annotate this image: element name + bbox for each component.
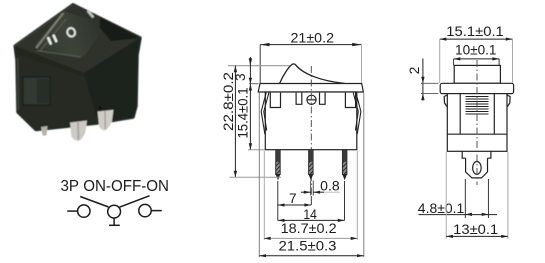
svg-text:15.4±0.1: 15.4±0.1: [235, 88, 250, 139]
photo pin 2: [70, 121, 87, 142]
photo rocker highlight edge: [37, 14, 64, 48]
svg-text:4.8±0.1: 4.8±0.1: [418, 201, 465, 216]
photo pin 3: [98, 110, 114, 131]
photo marking II: [47, 34, 58, 45]
dimension 13±0.1: [446, 152, 508, 239]
dimension 14: [278, 181, 345, 222]
schematic symbol: [67, 196, 161, 226]
dimension 22.8±0.2: [221, 66, 281, 178]
svg-text:22.8±0.2: 22.8±0.2: [221, 72, 236, 131]
dimension 15.1±0.1: [440, 24, 513, 83]
front centerline: [310, 66, 312, 196]
svg-text:0.8: 0.8: [320, 178, 340, 193]
schematic left stub wire: [67, 210, 77, 212]
photo bezel underside band: [15, 46, 85, 80]
dimension 18.7±0.2: [264, 151, 357, 240]
front center left tab: [296, 93, 302, 105]
front pin 3: [342, 150, 347, 181]
photo body front face: [17, 54, 98, 130]
front right tab: [345, 93, 355, 108]
photo bezel top-left edge light: [15, 5, 73, 46]
front flange: [258, 84, 363, 93]
svg-text:18.7±0.2: 18.7±0.2: [281, 221, 337, 236]
photo rocker surface: [35, 12, 104, 57]
photo front recessed panel: [23, 77, 50, 105]
front body outline: [265, 92, 357, 150]
side centerline: [476, 60, 478, 185]
photo front face dot: [99, 107, 102, 110]
dimension 3: [228, 57, 290, 93]
svg-text:15.1±0.1: 15.1±0.1: [446, 24, 504, 39]
schematic left lever wire: [80, 197, 108, 208]
svg-text:3P ON-OFF-ON: 3P ON-OFF-ON: [61, 178, 170, 195]
schematic right lever wire: [120, 196, 150, 208]
front screw circle: [307, 95, 316, 104]
schematic common stub wire: [113, 218, 115, 225]
side mid line: [447, 133, 507, 135]
photo bezel top face: [15, 5, 140, 73]
photo marking I: [86, 10, 94, 19]
side inner column right: [493, 94, 495, 135]
svg-text:2: 2: [407, 67, 422, 75]
dimension 7: [278, 181, 311, 220]
side left clip wedge: [444, 95, 447, 107]
rocker switch photo: [15, 5, 140, 141]
photo rocker shadow wedge: [100, 17, 140, 41]
side right clip wedge: [507, 95, 510, 107]
svg-text:14: 14: [303, 207, 317, 222]
dimension 21±0.2: [260, 31, 361, 84]
dimension 10±0.1: [454, 42, 500, 65]
dimension 4.8±0.1: [418, 179, 497, 218]
side neck: [462, 151, 491, 158]
front pin 2: [309, 150, 314, 181]
side knob: [454, 65, 500, 83]
svg-text:21.5±0.3: 21.5±0.3: [279, 239, 337, 254]
front pin 1: [276, 150, 281, 181]
front view drawing: [258, 64, 363, 150]
front rocker curve: [280, 64, 345, 84]
dimension 0.8: [301, 178, 340, 195]
svg-text:7: 7: [289, 191, 297, 206]
dimension 2: [407, 58, 439, 100]
photo pin 1 speck: [41, 126, 48, 136]
schematic right stub wire: [151, 210, 162, 212]
photo body silhouette: [15, 5, 140, 130]
schematic left terminal circle: [78, 205, 90, 217]
front left clip: [261, 93, 269, 135]
dimension 21.5±0.3: [259, 93, 364, 257]
photo marking O: [66, 27, 76, 38]
svg-text:21±0.2: 21±0.2: [291, 31, 335, 46]
front center right tab: [320, 93, 326, 105]
side flange: [440, 83, 513, 93]
side body: [447, 94, 507, 152]
side terminal: [466, 158, 488, 178]
photo left edge glint: [17, 58, 19, 110]
side inner column left: [459, 94, 461, 135]
side view drawing: [440, 65, 513, 177]
svg-text:10±0.1: 10±0.1: [455, 42, 497, 57]
schematic right terminal circle: [139, 204, 151, 216]
photo body right face: [84, 38, 140, 122]
svg-text:13±0.1: 13±0.1: [453, 222, 498, 237]
side terminal hole: [473, 162, 482, 175]
schematic common bar: [109, 224, 120, 226]
schematic middle terminal circle: [108, 205, 121, 218]
side ribs: [466, 97, 489, 115]
front left tab: [270, 93, 280, 108]
front right clip: [353, 93, 361, 135]
dimension 15.4±0.1: [235, 84, 264, 150]
